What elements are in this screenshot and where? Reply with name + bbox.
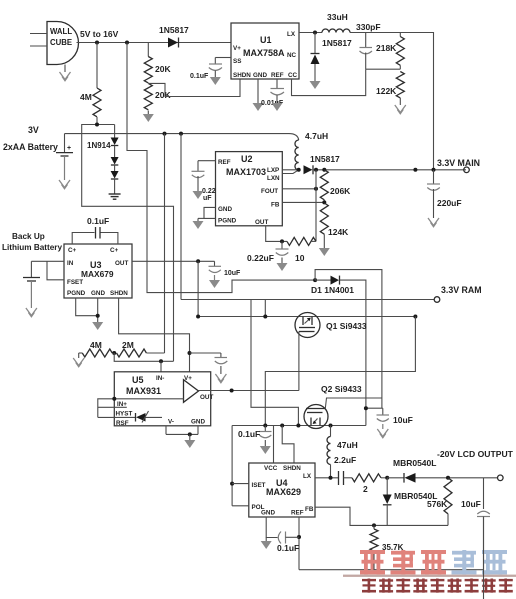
capacitor 10uF output <box>461 478 490 570</box>
svg-text:-20V LCD OUTPUT: -20V LCD OUTPUT <box>437 449 514 459</box>
op-amp U4 MAX629 box <box>249 463 315 517</box>
wire U4 REF down <box>298 517 300 570</box>
svg-text:0.22: 0.22 <box>202 188 216 195</box>
svg-text:REF: REF <box>271 72 284 79</box>
op-amp U3 MAX679 box <box>64 244 132 298</box>
wire 33uH to right rail and down to 3.3V MAIN <box>350 33 434 171</box>
svg-text:0.1uF: 0.1uF <box>238 429 260 439</box>
op-amp U2 MAX1703 box <box>216 152 283 226</box>
svg-text:330pF: 330pF <box>356 22 381 32</box>
wire U1 LX out <box>299 32 322 34</box>
svg-text:1N5817: 1N5817 <box>159 25 189 35</box>
diode MBR0540L horizontal <box>387 458 436 483</box>
svg-text:0.1uF: 0.1uF <box>190 73 209 80</box>
svg-text:LXP: LXP <box>267 167 279 174</box>
node 5V wire <box>77 42 232 44</box>
svg-text:+: + <box>67 145 71 152</box>
svg-text:10uF: 10uF <box>461 499 481 509</box>
wire U5 V- GND to ground <box>166 426 198 448</box>
capacitor 0.01uF at U1 REF <box>261 79 284 107</box>
wire U4 LX row <box>315 477 339 479</box>
svg-text:ISET: ISET <box>252 482 266 489</box>
capacitor 0.1uF flying cap on U3 <box>72 216 118 244</box>
svg-text:NC: NC <box>287 52 297 59</box>
svg-text:3.3V MAIN: 3.3V MAIN <box>437 158 480 168</box>
svg-text:SHDN: SHDN <box>283 465 301 472</box>
wire U3 FSET loop <box>47 261 64 280</box>
transistor Q2 Si9433 <box>304 384 362 429</box>
bracket tying IN+/HYST/RSF <box>98 399 115 418</box>
svg-text:3V: 3V <box>28 125 39 135</box>
capacitor 10uF at U3 OUT <box>209 261 242 288</box>
resistor 20K lower <box>144 83 171 114</box>
wire Q1 gate down to U5 OUT <box>298 332 300 391</box>
resistor 218K <box>376 33 404 70</box>
svg-text:47uH: 47uH <box>337 440 358 450</box>
wire U1 CC to 218K/122K junction <box>292 69 366 95</box>
wire D1 cathode to Q2 node <box>340 280 366 425</box>
svg-text:0.1uF: 0.1uF <box>87 216 109 226</box>
svg-text:OUT: OUT <box>255 219 268 226</box>
svg-text:122K: 122K <box>376 86 397 96</box>
svg-text:GND: GND <box>191 419 205 426</box>
wire Q2 gate up to D1 jog rail <box>325 398 382 409</box>
wire bottom feedback rail <box>299 569 484 571</box>
svg-text:35.7K: 35.7K <box>382 543 404 552</box>
watermark underline <box>343 575 516 577</box>
wall cube AC adapter <box>47 22 79 65</box>
svg-text:GND: GND <box>261 510 275 517</box>
wire U4 VCC rail <box>232 425 366 427</box>
svg-text:206K: 206K <box>330 186 351 196</box>
ground 122K <box>395 105 406 114</box>
node 3.3V RAM wire <box>181 299 434 301</box>
wire U2 OUT down <box>266 226 287 242</box>
op-amp U1 MAX758A box <box>231 23 299 79</box>
wire 4M/2M junction to U5 IN- <box>114 353 173 361</box>
wire RAM to Q1 node <box>264 300 266 317</box>
svg-text:FSET: FSET <box>67 279 83 286</box>
svg-text:FB: FB <box>305 506 314 513</box>
wire 10uF output down through watermark <box>483 517 485 599</box>
wire ISET/POL rail <box>231 426 233 506</box>
capacitor 2.2uF <box>334 455 356 485</box>
svg-text:C+: C+ <box>110 247 119 254</box>
svg-text:LX: LX <box>287 31 296 38</box>
svg-text:U5: U5 <box>132 375 144 385</box>
svg-text:IN: IN <box>67 260 74 267</box>
svg-text:MAX629: MAX629 <box>266 487 301 497</box>
node 3.3V MAIN wire <box>313 169 466 171</box>
wire 10 ohm to FOUT rail <box>311 240 316 242</box>
resistor 206K <box>320 170 351 203</box>
capacitor 10uF at D1 node <box>377 408 413 438</box>
capacitor 0.1uF at U4 GND-REF <box>277 532 299 554</box>
terminal -20V LCD OUTPUT <box>498 475 504 481</box>
wire U2 REF <box>198 160 216 162</box>
svg-text:2M: 2M <box>122 340 134 350</box>
resistor 10 ohm <box>287 237 316 263</box>
diode MBR0540L vertical <box>383 478 438 526</box>
svg-text:4M: 4M <box>80 92 92 102</box>
svg-text:D1 1N4001: D1 1N4001 <box>311 285 354 295</box>
rail battery to 2M <box>164 134 166 353</box>
svg-text:Lithium Battery: Lithium Battery <box>2 243 62 252</box>
svg-text:20K: 20K <box>155 64 171 74</box>
svg-text:VCC: VCC <box>264 465 278 472</box>
resistor 4M vertical <box>80 43 101 125</box>
diode 1N5817 top-left <box>159 25 189 48</box>
svg-text:V+: V+ <box>233 45 241 52</box>
svg-text:576K: 576K <box>427 499 448 509</box>
ground U1 GND pin <box>253 79 264 111</box>
diode D1 1N4001 <box>311 276 354 295</box>
diode 1N5817 at U2 output <box>304 154 341 174</box>
svg-text:SS: SS <box>233 58 241 65</box>
svg-text:SHDN: SHDN <box>233 72 251 79</box>
resistor 4M horizontal <box>79 340 113 357</box>
svg-text:1N5817: 1N5817 <box>322 38 352 48</box>
wire 330pF bottom to divider junction <box>366 68 401 70</box>
diode string 1N914 <box>87 125 119 194</box>
svg-text:GND: GND <box>91 290 105 297</box>
transistor Q1 Si9433 <box>295 313 367 338</box>
wire U3 OUT <box>132 260 215 262</box>
svg-text:5V to 16V: 5V to 16V <box>80 29 119 39</box>
wire to -20V terminal <box>416 477 498 479</box>
wire V+ branch to bypass cap <box>190 352 221 354</box>
svg-text:33uH: 33uH <box>327 12 348 22</box>
svg-text:218K: 218K <box>376 43 397 53</box>
wire battery to U3 IN <box>31 260 64 262</box>
wire U3 PGND GND join <box>76 298 104 330</box>
comparator triangle U5 <box>184 380 199 403</box>
svg-text:WALL: WALL <box>50 27 72 36</box>
svg-text:0.22uF: 0.22uF <box>247 253 274 263</box>
svg-text:PGND: PGND <box>218 218 237 225</box>
svg-text:MBR0540L: MBR0540L <box>393 458 436 468</box>
svg-text:U2: U2 <box>241 154 253 164</box>
ground 3V battery <box>59 180 70 189</box>
wire D1 jog rail to Q2 gate <box>315 270 382 398</box>
svg-text:U1: U1 <box>260 35 272 45</box>
ground 220uF <box>428 218 439 227</box>
wire POL <box>232 505 249 507</box>
resistor 576K <box>427 478 452 526</box>
junction dots on 5V rail <box>95 41 99 45</box>
ground lithium battery <box>26 308 37 317</box>
ground LX diode <box>310 81 321 89</box>
svg-text:LX: LX <box>303 473 312 480</box>
ground for 20K <box>143 114 154 122</box>
svg-text:1N5817: 1N5817 <box>310 154 340 164</box>
svg-text:MAX1703: MAX1703 <box>226 167 266 177</box>
svg-text:REF: REF <box>291 510 304 517</box>
capacitor V+ bypass <box>215 353 228 383</box>
svg-text:FOUT: FOUT <box>261 188 278 195</box>
resistor 35.7K <box>370 525 404 569</box>
battery 3V 2xAA <box>3 125 73 180</box>
svg-text:20K: 20K <box>155 90 171 100</box>
wire U4 GND down <box>266 517 277 538</box>
svg-text:RSF: RSF <box>116 420 129 427</box>
svg-text:OUT: OUT <box>200 394 213 401</box>
svg-text:MAX931: MAX931 <box>126 386 161 396</box>
svg-text:10uF: 10uF <box>393 415 413 425</box>
diode 1N5817 vertical at LX <box>311 33 353 82</box>
svg-text:3.3V RAM: 3.3V RAM <box>441 285 482 295</box>
svg-text:CUBE: CUBE <box>50 38 72 47</box>
battery 2xAA rail <box>65 134 299 140</box>
svg-text:124K: 124K <box>328 227 349 237</box>
svg-text:Q2 Si9433: Q2 Si9433 <box>321 384 362 394</box>
svg-text:10: 10 <box>295 253 305 263</box>
ground U2 REF cap <box>193 191 204 199</box>
wire SHDN pin jog <box>282 426 294 464</box>
1N914 box top edge <box>82 125 174 362</box>
svg-text:220uF: 220uF <box>437 198 462 208</box>
terminal 3.3V MAIN <box>464 167 470 173</box>
svg-text:0.1uF: 0.1uF <box>277 543 299 553</box>
wire U2 FB <box>282 201 324 203</box>
diode reference inside U5 <box>136 411 163 423</box>
capacitor 330pF <box>356 22 381 69</box>
svg-text:4M: 4M <box>90 340 102 350</box>
resistor 122K <box>376 72 404 106</box>
resistor 2 <box>344 474 388 494</box>
svg-text:HYST: HYST <box>116 411 133 418</box>
battery lithium backup <box>23 261 40 308</box>
ground 3-bar under 1N914 <box>109 194 121 199</box>
ground 4M <box>73 353 84 367</box>
svg-text:MAX758A: MAX758A <box>243 48 285 58</box>
wire ISET <box>232 483 249 485</box>
wire U3 OUT node down <box>197 261 199 316</box>
svg-text:C+: C+ <box>68 247 77 254</box>
svg-text:OUT: OUT <box>115 260 128 267</box>
wire U4 FB route <box>315 507 448 525</box>
watermark logo big text <box>360 550 446 574</box>
svg-text:4.7uH: 4.7uH <box>305 131 328 141</box>
ground 0.22uF <box>277 263 288 271</box>
wire VCC pin <box>273 426 275 464</box>
resistor 20K upper <box>144 43 171 83</box>
svg-text:2: 2 <box>363 484 368 494</box>
svg-text:REF: REF <box>218 159 231 166</box>
wall cube input leads <box>30 33 47 35</box>
wire IN- pin <box>160 361 162 372</box>
svg-text:Q1 Si9433: Q1 Si9433 <box>326 321 367 331</box>
capacitor 0.1uF on VCC rail <box>238 426 272 455</box>
wire U2 GND/PGND to ground <box>193 207 216 229</box>
ground 124K <box>319 248 330 256</box>
resistor 2M horizontal <box>112 340 164 357</box>
wire RAM rail down to Q2 source path <box>251 300 298 426</box>
capacitor 0.1uF at U1 SS <box>190 58 231 81</box>
wire U2 LXP to coil node <box>282 169 298 171</box>
svg-text:10uF: 10uF <box>224 270 241 277</box>
wire FOUT rail down to 10 ohm <box>315 170 317 242</box>
op-amp U5 MAX931 box <box>114 372 213 427</box>
inductor 4.7uH <box>295 131 328 170</box>
wire U2 LXN <box>282 170 298 174</box>
wire D1 node row <box>366 407 383 409</box>
wire 5V jog rail down to D1 anode <box>127 43 315 293</box>
svg-text:CC: CC <box>288 72 298 79</box>
ground U4 GND <box>261 538 272 550</box>
rail battery right branch down to 3.3V RAM jog <box>180 134 182 300</box>
svg-text:LXN: LXN <box>267 175 280 182</box>
wire U3 SHDN to U5 V+ <box>119 298 190 372</box>
wire 20K tap to U1 SHDN <box>148 79 240 97</box>
svg-text:1N914: 1N914 <box>87 141 111 150</box>
svg-text:Back Up: Back Up <box>12 232 45 241</box>
svg-text:GND: GND <box>253 72 267 79</box>
inductor 33uH <box>322 12 350 33</box>
svg-text:FB: FB <box>271 202 280 209</box>
svg-text:uF: uF <box>203 195 212 202</box>
capacitor 0.22uF at U2 OUT <box>247 241 289 263</box>
capacitor 220uF <box>427 170 462 218</box>
watermark subtitle <box>362 579 513 593</box>
wire U5 OUT to Q1 gate <box>199 390 299 392</box>
svg-text:IN-: IN- <box>156 375 164 382</box>
svg-text:2.2uF: 2.2uF <box>334 455 356 465</box>
ground SS cap <box>210 77 221 85</box>
capacitor 0.22uF at U2 REF <box>192 161 216 202</box>
resistor 124K <box>320 203 349 248</box>
wire 3.3VMAIN rail down to U4 VCC rail <box>265 317 415 426</box>
svg-text:2xAA Battery: 2xAA Battery <box>3 142 58 152</box>
svg-text:SHDN: SHDN <box>110 290 128 297</box>
terminal 3.3V RAM <box>434 297 440 303</box>
ground REF cap <box>272 103 283 111</box>
wire Q1 row <box>198 316 415 318</box>
svg-text:MAX679: MAX679 <box>81 269 114 279</box>
svg-text:GND: GND <box>218 206 232 213</box>
wire U2 FOUT <box>282 188 316 190</box>
svg-text:PGND: PGND <box>67 290 86 297</box>
U5 internal pin leads <box>114 398 183 400</box>
inductor 47uH <box>327 426 358 478</box>
wall cube ground <box>60 65 71 81</box>
svg-text:V-: V- <box>168 419 174 426</box>
